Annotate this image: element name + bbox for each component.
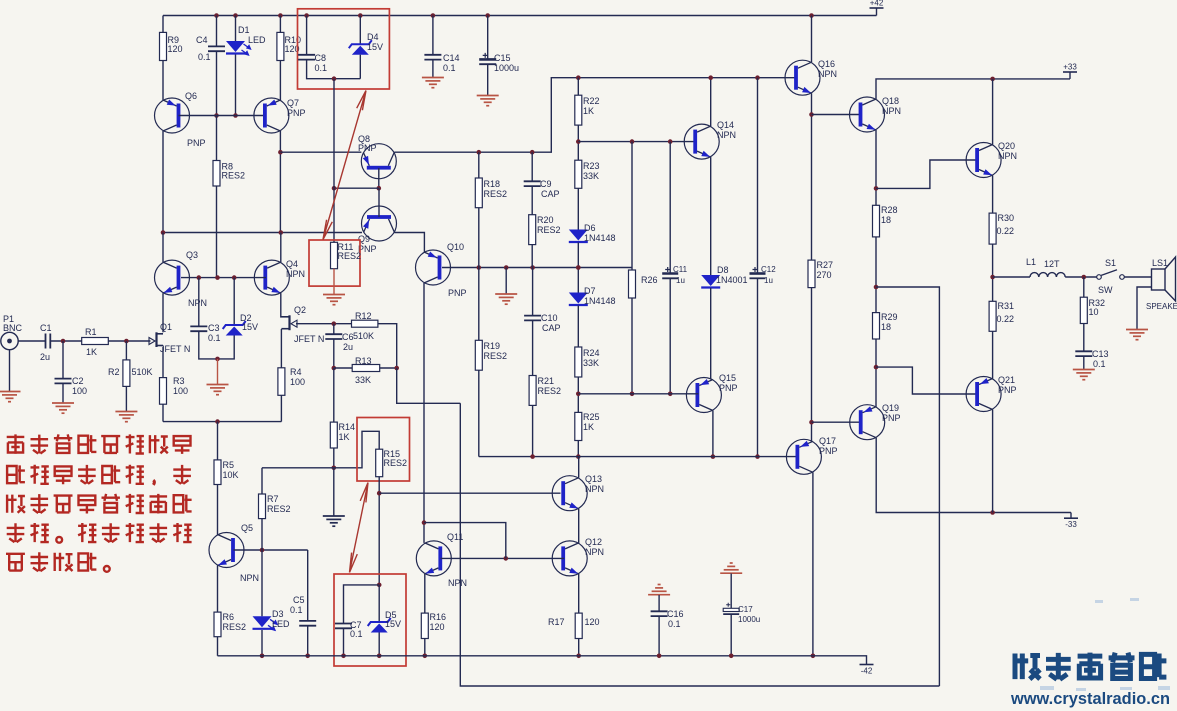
resistor R15 (376, 449, 383, 477)
junction (668, 139, 673, 144)
svg-text:SW: SW (1098, 285, 1113, 295)
junction (530, 265, 535, 270)
wire R7 to base node (261, 519, 263, 550)
wire base wire to R8 (216, 116, 218, 161)
wire R16 down (424, 639, 426, 656)
junction (755, 75, 760, 80)
junction (477, 265, 482, 270)
svg-text:NPN: NPN (882, 106, 901, 116)
svg-text:Q21: Q21 (998, 375, 1015, 385)
svg-text:NPN: NPN (717, 130, 736, 140)
wire C11 down (669, 278, 671, 394)
wire node to R2 (125, 341, 127, 360)
resistor R19 (475, 340, 482, 370)
wire -33 stem (1070, 513, 1072, 519)
ground under C15 (477, 96, 499, 106)
svg-text:R12: R12 (355, 311, 372, 321)
svg-text:100: 100 (72, 386, 87, 396)
wire R29 node to Q21 base (876, 367, 978, 394)
svg-text:Q6: Q6 (185, 91, 197, 101)
svg-text:C13: C13 (1092, 349, 1109, 359)
wire Q8 collector to Q16 base (394, 78, 797, 153)
wire P1 to C1 (18, 340, 45, 342)
transistor Q10 (416, 250, 451, 285)
svg-text:100: 100 (173, 386, 188, 396)
wire rail to C14 (432, 16, 434, 55)
svg-text:RES2: RES2 (484, 351, 508, 361)
svg-text:RES2: RES2 (537, 225, 561, 235)
svg-text:C1: C1 (40, 323, 52, 333)
svg-text:1u: 1u (764, 276, 773, 285)
ground under C14 (422, 78, 444, 88)
svg-text:18: 18 (881, 322, 891, 332)
capacitor C13 (1075, 351, 1092, 356)
svg-text:PNP: PNP (719, 383, 738, 393)
ground under C3/D2 (207, 385, 229, 395)
watermark ghost marks (1040, 598, 1170, 691)
junction (504, 556, 509, 561)
svg-text:D1: D1 (238, 25, 250, 35)
wire R6 down (217, 637, 219, 656)
zener diode D4 (349, 40, 372, 48)
svg-text:120: 120 (430, 622, 445, 632)
resistor R22 (575, 95, 582, 125)
svg-text:0.1: 0.1 (290, 605, 303, 615)
svg-text:1N4148: 1N4148 (584, 233, 616, 243)
svg-text:JFET N: JFET N (294, 334, 324, 344)
svg-text:LED: LED (248, 35, 266, 45)
wire base node to C5 (307, 550, 309, 621)
wire Q11/Q12 base wire (441, 557, 565, 559)
wire Q17 collector down (812, 472, 814, 656)
red highlight box 3 (357, 418, 410, 482)
junction (124, 339, 129, 344)
svg-text:RES2: RES2 (222, 171, 246, 181)
junction (990, 275, 995, 280)
wire R5 to Q5 collector (217, 485, 219, 535)
svg-text:R23: R23 (583, 161, 600, 171)
wire D6 to D7 (577, 243, 579, 293)
junction (232, 275, 237, 280)
ground under C13 (1073, 370, 1095, 380)
wire D4 to bottom (359, 55, 361, 79)
wire Q16 emitter / R27 column (811, 93, 813, 260)
junction (576, 265, 581, 270)
junction (711, 454, 716, 459)
wire VAS to Q17 base (479, 456, 798, 458)
svg-text:15V: 15V (242, 322, 258, 332)
transistor Q18 (850, 97, 885, 132)
ground under R14 (323, 516, 345, 526)
wire rail to D1 (235, 16, 237, 42)
wire R13 to node (380, 367, 397, 369)
wire R29 to Q19 emitter (875, 339, 877, 407)
junction (657, 654, 662, 659)
wire C10 to R21 (532, 320, 534, 375)
wire R18 to R19 (478, 208, 480, 341)
junction (377, 186, 382, 191)
wire to C12 (757, 78, 759, 274)
svg-text:RES2: RES2 (384, 458, 408, 468)
ground mid (495, 294, 517, 304)
svg-text:NPN: NPN (286, 269, 305, 279)
wire rail to D4 (359, 16, 361, 45)
wire node to R13 (334, 367, 352, 369)
resistor R32 (1080, 297, 1087, 323)
svg-text:1K: 1K (339, 432, 350, 442)
capacitor C10 (524, 316, 541, 321)
junction (215, 357, 220, 362)
svg-text:510K: 510K (132, 367, 153, 377)
wire rail to C4 (216, 16, 218, 47)
wire Q4 emitter to Q2 (280, 293, 282, 318)
junction (341, 654, 346, 659)
wire R9 to Q6 emitter (162, 61, 164, 101)
svg-text:Q3: Q3 (186, 250, 198, 260)
svg-text:0.1: 0.1 (443, 63, 456, 73)
svg-text:2u: 2u (40, 352, 50, 362)
junction (809, 420, 814, 425)
wire base to C3 (198, 278, 200, 327)
wire Q3 base to Q4 base (181, 277, 266, 279)
resistor R31 (989, 301, 996, 331)
wire node to C7 (344, 585, 380, 624)
wire +42 stem (876, 8, 878, 16)
red arrow between box1 and box2 (323, 91, 366, 240)
junction (874, 186, 879, 191)
svg-text:0.1: 0.1 (668, 619, 681, 629)
wire node to R14 (333, 368, 335, 422)
inverted ground above C17 (720, 563, 742, 573)
svg-text:+33: +33 (1063, 63, 1077, 72)
wire C15 to ground (487, 64, 489, 95)
svg-text:R18: R18 (484, 179, 501, 189)
svg-text:PNP: PNP (448, 288, 467, 298)
junction (215, 419, 220, 424)
junction (576, 75, 581, 80)
capacitor C5 (299, 621, 316, 626)
wire Q7 collector down (279, 131, 281, 233)
svg-text:0.1: 0.1 (1093, 359, 1106, 369)
transistor Q9 (362, 206, 397, 241)
resistor R4 (278, 368, 285, 396)
capacitor C8 (298, 55, 315, 60)
wire R14 down (333, 448, 335, 468)
svg-text:Q1: Q1 (160, 322, 172, 332)
junction (278, 150, 283, 155)
wire Q19 collector / -33 rail (876, 438, 1071, 513)
transistor Q14 (684, 124, 719, 159)
junction (708, 75, 713, 80)
wire Q20 emitter to R30 (992, 176, 994, 214)
svg-text:Q19: Q19 (882, 403, 899, 413)
wire node to D3 (261, 550, 263, 616)
svg-text:C2: C2 (72, 376, 84, 386)
wire R32 to C13 (1083, 324, 1085, 352)
resistor R3 (160, 378, 167, 405)
svg-text:Q18: Q18 (882, 96, 899, 106)
junction (197, 275, 202, 280)
wire S1 to speaker (1124, 276, 1151, 278)
junction (630, 392, 635, 397)
svg-text:510K: 510K (353, 331, 374, 341)
junction (394, 366, 399, 371)
svg-text:D3: D3 (272, 609, 284, 619)
svg-text:1N4001: 1N4001 (716, 275, 748, 285)
resistor R28 (873, 205, 880, 237)
junction (377, 491, 382, 496)
svg-text:Q17: Q17 (819, 436, 836, 446)
svg-text:LS1: LS1 (1152, 258, 1168, 268)
svg-text:1000u: 1000u (494, 63, 519, 73)
wire Q10 base distribution (442, 267, 632, 269)
red arrow between box3 and box4 (350, 483, 369, 573)
svg-text:0.1: 0.1 (198, 52, 211, 62)
wire gate node to C6 (333, 324, 335, 335)
svg-text:RES2: RES2 (267, 504, 291, 514)
junction (332, 321, 337, 326)
wire R30 to R31 (992, 244, 994, 301)
diode D7 (569, 293, 588, 304)
svg-text:15V: 15V (367, 42, 383, 52)
JFET Q1 (157, 332, 164, 347)
capacitor C14 (424, 55, 441, 60)
wire speaker to ground (1137, 287, 1152, 330)
svg-text:RES2: RES2 (223, 622, 247, 632)
svg-text:RES2: RES2 (538, 386, 562, 396)
svg-text:10K: 10K (223, 470, 239, 480)
wire R22 to R23 (577, 125, 579, 160)
wire C1 to R1 (50, 340, 81, 342)
wire Q11 collector loop to Q12 base (424, 523, 506, 559)
wire Q7 collector to Q8 emitter (280, 151, 361, 153)
svg-text:D8: D8 (717, 265, 729, 275)
wire Q5 base wire (234, 549, 308, 551)
svg-text:Q10: Q10 (447, 242, 464, 252)
wire Q20 collector up (992, 79, 994, 145)
svg-text:270: 270 (817, 270, 832, 280)
svg-text:R16: R16 (430, 612, 447, 622)
wire D3 down (261, 630, 263, 656)
wire Q18 emitter to R28 (875, 130, 877, 205)
wire D8 to Q15 emitter (710, 288, 712, 380)
wire Q2 gate to R12 (296, 323, 352, 325)
resistor R12 (352, 320, 378, 327)
junction (161, 230, 166, 235)
wire ground to C17 (730, 574, 732, 609)
power -42 (860, 664, 874, 666)
svg-text:R17: R17 (548, 617, 565, 627)
wire C12 down (757, 278, 759, 456)
resistor R29 (873, 313, 880, 339)
svg-text:PNP: PNP (819, 446, 838, 456)
wire R1 to Q1 gate (108, 340, 150, 342)
junction (504, 265, 509, 270)
capacitor C3 (190, 326, 207, 331)
junction (530, 150, 535, 155)
junction (215, 275, 220, 280)
transistor Q17 (786, 439, 821, 474)
svg-text:NPN: NPN (998, 151, 1017, 161)
wire base to D2 (233, 278, 235, 325)
svg-text:Q15: Q15 (719, 373, 736, 383)
wire R23 to D6 (577, 188, 579, 229)
junction (630, 139, 635, 144)
wire R10 to Q7 emitter (279, 61, 281, 101)
svg-text:C15: C15 (494, 53, 511, 63)
svg-text:PNP: PNP (187, 138, 206, 148)
JFET Q2 (281, 315, 289, 330)
svg-text:C12: C12 (761, 265, 776, 274)
wire C9 to R20 (531, 186, 533, 215)
ground under R11 (323, 295, 345, 305)
junction (576, 139, 581, 144)
svg-text:C6: C6 (342, 332, 354, 342)
wire R20 down (531, 245, 533, 268)
power +33 (1063, 71, 1077, 73)
junction (576, 392, 581, 397)
wire Q8 base down (378, 168, 380, 188)
capacitor C1 (46, 334, 51, 349)
wire Q16 collector to rail (811, 16, 813, 63)
wire Q9 collector to Q10 emitter (395, 233, 425, 253)
svg-text:R21: R21 (538, 376, 555, 386)
wire R25 down (577, 441, 579, 457)
wire Q3 emitter to Q1 drain (162, 293, 164, 332)
switch S1 (1097, 275, 1102, 280)
svg-text:RES2: RES2 (338, 251, 362, 261)
capacitor C2 (55, 379, 72, 384)
svg-text:+42: +42 (870, 0, 884, 8)
svg-text:Q16: Q16 (818, 59, 835, 69)
red chinese annotation text (7, 434, 25, 454)
wire +42 top rail (163, 15, 877, 17)
wire P1 to ground (9, 350, 11, 392)
capacitor C16 (651, 611, 668, 616)
wire Q13 collector up (578, 457, 580, 478)
wire node to ground (505, 268, 507, 295)
resistor R27 (808, 260, 815, 288)
resistor R21 (529, 376, 536, 406)
wire Q21 collector down (992, 410, 994, 513)
junction (874, 365, 879, 370)
power -33 (1064, 517, 1078, 519)
svg-text:R1: R1 (85, 327, 97, 337)
junction (576, 454, 581, 459)
svg-text:0.22: 0.22 (997, 314, 1015, 324)
resistor R14 (330, 422, 337, 448)
wire output to L1 (993, 276, 1030, 278)
wire C2 to ground (62, 383, 64, 403)
svg-text:C4: C4 (196, 35, 208, 45)
junction (305, 654, 310, 659)
wire C3 to ground node (199, 331, 218, 359)
svg-text:RES2: RES2 (484, 189, 508, 199)
wire Q6 base to Q7 base (179, 115, 266, 117)
wire node to R32 (1083, 277, 1085, 297)
svg-text:100: 100 (290, 377, 305, 387)
svg-text:0.1: 0.1 (208, 333, 221, 343)
resistor R11 (331, 242, 338, 268)
wire R17 down (578, 639, 580, 656)
svg-text:Q4: Q4 (286, 259, 298, 269)
junction (61, 339, 66, 344)
wire R11 to ground (333, 269, 335, 295)
resistor R17 (575, 613, 582, 638)
wire Q5 emitter to R6 (217, 566, 219, 613)
wire node to C2 (62, 341, 64, 379)
resistor R25 (575, 412, 582, 440)
speaker LS1 (1152, 269, 1166, 290)
transistor Q20 (966, 143, 1001, 178)
wire Q2 source to R4 (280, 329, 282, 368)
svg-text:Q14: Q14 (717, 120, 734, 130)
svg-text:0.1: 0.1 (350, 629, 363, 639)
junction (278, 13, 283, 18)
wire ground to C16 (658, 595, 660, 611)
resistor R2 (123, 360, 130, 387)
wire Q3 collector up (162, 233, 164, 263)
resistor R6 (214, 612, 221, 637)
wire Q15 collector down (712, 411, 714, 457)
resistor R20 (529, 215, 536, 245)
capacitor C12 (750, 274, 766, 279)
junction (233, 13, 238, 18)
capacitor C11 (662, 274, 678, 279)
junction (485, 13, 490, 18)
svg-text:C10: C10 (541, 313, 558, 323)
svg-text:Q20: Q20 (998, 141, 1015, 151)
svg-text:120: 120 (168, 44, 183, 54)
wire D7 to R24 (577, 306, 579, 348)
junction (755, 454, 760, 459)
svg-text:C5: C5 (293, 595, 305, 605)
svg-text:D7: D7 (584, 286, 596, 296)
svg-text:1000u: 1000u (738, 615, 760, 624)
svg-text:1u: 1u (676, 276, 685, 285)
svg-text:R29: R29 (881, 312, 898, 322)
junction (576, 654, 581, 659)
svg-text:PNP: PNP (287, 108, 306, 118)
capacitor C6 (325, 334, 342, 339)
svg-text:120: 120 (585, 617, 600, 627)
junction (990, 77, 995, 82)
junction (214, 13, 219, 18)
wire R26 down (631, 298, 633, 394)
wire rail to R9 (162, 16, 164, 33)
svg-text:NPN: NPN (585, 484, 604, 494)
transistor Q3 (155, 260, 190, 295)
svg-text:1K: 1K (583, 422, 594, 432)
wire R15 to box4 node (378, 477, 380, 585)
wire box1 down to R11 (333, 79, 335, 243)
svg-text:SPEAKER: SPEAKER (1146, 302, 1177, 311)
wire Q9 base up (378, 188, 380, 217)
wire C7 down (343, 628, 345, 656)
svg-text:LED: LED (272, 619, 290, 629)
wire Q12 emitter to R17 (578, 574, 580, 613)
svg-text:R7: R7 (267, 494, 279, 504)
svg-text:C8: C8 (315, 53, 327, 63)
transistor Q19 (850, 405, 885, 440)
wire R24 to R25 (577, 377, 579, 412)
junction (214, 113, 219, 118)
LED D1 (226, 41, 245, 52)
svg-text:R14: R14 (339, 422, 356, 432)
svg-text:Q7: Q7 (287, 98, 299, 108)
resistor R24 (575, 347, 582, 377)
resistor R26 (629, 270, 636, 298)
